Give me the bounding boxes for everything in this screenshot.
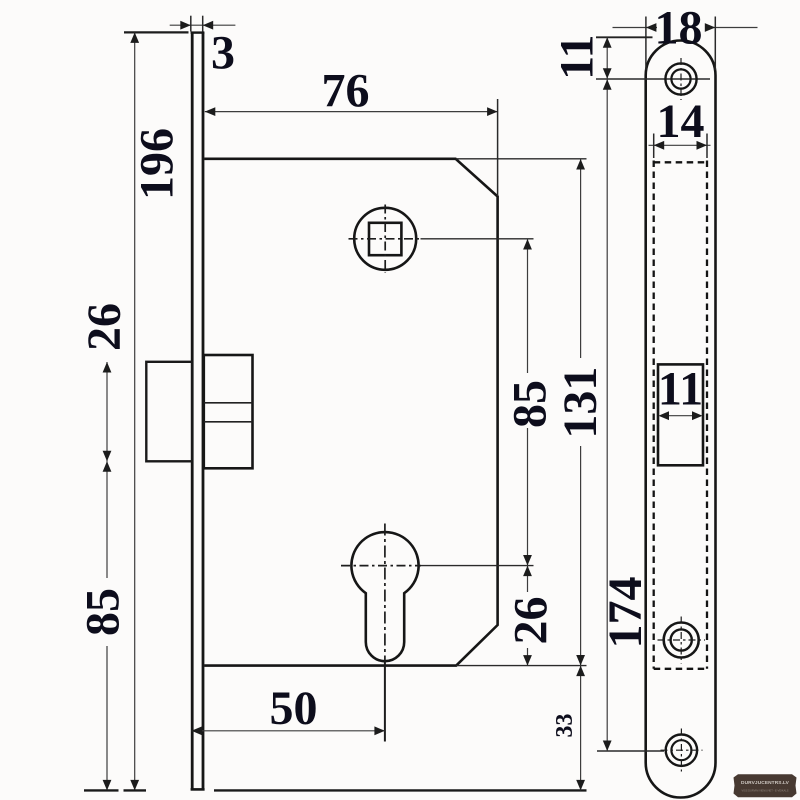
faceplate (edge view)	[191, 32, 205, 790]
dimension 26 (right, cylinder to bottom)	[505, 566, 558, 666]
svg-text:50: 50	[270, 682, 318, 735]
svg-text:131: 131	[554, 367, 607, 439]
dimension 85 (center, spindle to cylinder)	[421, 239, 557, 566]
euro cylinder cutout	[351, 532, 418, 661]
svg-text:11: 11	[658, 362, 703, 415]
svg-text:3: 3	[211, 27, 235, 80]
svg-text:VISS DURVIM VIENUVIET - E-VEIK: VISS DURVIM VIENUVIET - E-VEIKALS	[742, 789, 789, 793]
svg-text:26: 26	[505, 597, 558, 645]
dimension 76 (top width)	[205, 65, 498, 196]
svg-text:196: 196	[131, 128, 184, 200]
dimension 14 (inset width)	[649, 95, 711, 158]
bottom baseline	[84, 789, 119, 791]
dimension 131 (body height)	[456, 159, 607, 666]
svg-text:DURVJUCENTRS.LV: DURVJUCENTRS.LV	[741, 780, 790, 786]
dimension 196 (overall faceplate height)	[124, 32, 189, 790]
svg-text:18: 18	[655, 1, 703, 54]
latch bolt protruding left	[146, 362, 192, 462]
dimension 3 (faceplate thickness)	[170, 16, 236, 80]
top screw hole	[596, 58, 710, 100]
lock body outline	[204, 159, 497, 666]
dimension 50 (backset)	[192, 682, 385, 735]
svg-text:76: 76	[322, 65, 370, 118]
spindle square hole	[369, 223, 401, 255]
svg-text:85: 85	[77, 588, 130, 636]
dimension 33 (body bottom to faceplate end)	[552, 666, 585, 791]
bolt cutout on plate (11)	[658, 362, 703, 465]
spindle follower hub	[354, 208, 416, 270]
svg-text:11: 11	[550, 35, 603, 80]
svg-text:174: 174	[599, 577, 652, 649]
middle screw hole	[658, 617, 706, 664]
dimension 11 (plate top to screw)	[550, 35, 652, 80]
svg-text:14: 14	[657, 95, 705, 148]
latch housing inside body	[204, 355, 253, 468]
follower center lines	[349, 238, 422, 240]
dimension 85 (left, latch to bottom)	[77, 461, 130, 790]
dimension 18 (plate width)	[613, 1, 758, 70]
dimension 174 (screw spacing)	[599, 79, 652, 751]
svg-text:26: 26	[78, 303, 131, 351]
bottom screw hole	[597, 729, 703, 772]
svg-text:85: 85	[504, 380, 557, 428]
dashed inset lines on plate	[654, 161, 707, 669]
strike plate outline (front view)	[646, 41, 716, 798]
watermark badge	[734, 774, 797, 797]
dimension 26 (left, latch height)	[78, 303, 131, 461]
svg-text:33: 33	[552, 714, 578, 738]
cylinder center lines	[341, 565, 421, 567]
